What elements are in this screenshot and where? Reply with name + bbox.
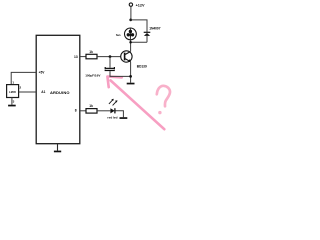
wire pin13 to R1 [80,56,86,58]
wire pin8 to R2 [80,110,86,112]
wire R2 to LED [97,110,110,112]
Arduino box U1 [36,35,80,143]
wire emitter down [130,62,132,83]
transistor Q1 emitter diagonal [125,58,131,61]
ground bar GND (LED) [120,117,128,119]
ground bar GND (emitter) [127,83,135,85]
LED D2 cathode bar [114,108,116,113]
wire bottom rail diode to collector [131,41,147,43]
pink annotation arrowhead barbs [107,77,121,88]
LED D2 triangle [110,108,114,113]
transistor Q1 base bar [124,53,126,61]
pink question mark dot [158,111,161,114]
svg-text:1k: 1k [89,104,93,108]
svg-text:+12V: +12V [136,3,145,7]
wire capacitor to ground rail [110,71,131,76]
+12V terminal circle [129,3,132,6]
svg-text:LM35: LM35 [9,90,16,94]
svg-text:1N4007: 1N4007 [149,27,160,31]
fan M1 circle [124,28,136,40]
diode D1 triangle [144,33,150,36]
svg-text:1k: 1k [89,50,93,54]
wire +12V down [130,6,132,20]
junction emitter/ground rail [129,75,132,78]
transistor Q1 emitter arrowhead [128,59,131,62]
capacitor C1 bottom plate [105,70,115,71]
svg-text:100µF/16V: 100µF/16V [85,74,101,78]
wire collector up [130,42,132,51]
wire +5V to LM35 [11,72,36,84]
svg-text:8: 8 [75,108,77,112]
capacitor C1 top plate [105,67,114,69]
wire fan bottom to collector junction [129,40,131,43]
svg-text:BD139: BD139 [137,64,147,68]
resistor R1 body [86,54,97,59]
svg-text:fan: fan [116,33,121,37]
LM35 sensor box [7,85,19,98]
diode D1 cathode bar [144,32,151,33]
wire LM35 pin3 down [11,98,13,105]
transistor Q1 circle [121,51,132,62]
junction node base/cap [109,55,112,58]
pink annotation arrow shaft [111,80,165,129]
svg-text:red led: red led [107,115,117,119]
ground stub below Arduino [57,144,59,151]
junction +12V rail [129,19,132,22]
pink question mark [157,86,170,107]
wire node to capacitor [109,57,111,68]
resistor R2 body [86,109,97,114]
wire diode anode down [146,36,148,42]
ground bar GND (Arduino) [54,151,61,153]
svg-text:13: 13 [74,55,78,59]
svg-text:ARDUINO: ARDUINO [50,90,70,95]
fan M1 shaft wire [129,28,131,40]
wire R1 to base node [97,56,121,58]
svg-text:A1: A1 [41,90,45,94]
ground bar GND (LM35) [8,105,16,107]
LED D2 light arrows [109,99,117,105]
wire top rail to diode [131,20,147,32]
transistor Q1 collector diagonal [125,52,131,55]
junction collector node [129,41,132,44]
svg-text:+5V: +5V [39,70,46,74]
wire LED to ground [116,111,124,117]
fan M1 blades [127,30,135,38]
wire LM35 pin2 to A1 [19,91,37,93]
